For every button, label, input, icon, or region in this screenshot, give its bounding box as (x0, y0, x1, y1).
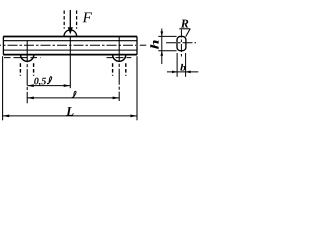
force F arrow (69, 10, 71, 28)
label script ell of 0,5l (47, 77, 51, 84)
L extension line left (2, 56, 4, 120)
right support roller axis (horizontal centerline) (107, 57, 132, 59)
b extension line right (185, 53, 187, 77)
cross-section horizontal centerline (166, 42, 196, 44)
h dimension line (161, 29, 163, 65)
right support roller arc (113, 55, 126, 62)
R leader shelf (179, 28, 190, 30)
loading nose semicircle (64, 30, 77, 36)
h extension line top (158, 35, 176, 37)
label 0,5 digit ',' (39, 83, 41, 86)
left support roller arc (21, 55, 34, 62)
left support hidden leg left (dashed) (19, 63, 21, 75)
mid-span extension line (69, 37, 71, 89)
right support hidden leg left (dashed) (112, 63, 114, 75)
force fixture hidden edge right (dashed) (76, 11, 78, 29)
left support centerline / extension line (26, 40, 28, 103)
label R (181, 20, 189, 28)
cross-section rounded rectangle (177, 36, 186, 50)
dimension 0,5l line (27, 85, 70, 87)
b extension line left (176, 53, 178, 77)
label h (rotated) (150, 40, 158, 49)
b dimension line (167, 71, 198, 73)
label l (script ell) (72, 91, 76, 97)
label F (83, 12, 92, 22)
label 0,5 digit '0' (34, 78, 38, 85)
beam axis centerline end dash (140, 44, 146, 46)
label L (66, 107, 73, 116)
L extension line right (136, 56, 138, 120)
R leader diagonal (186, 29, 191, 37)
right support centerline / extension line (118, 37, 120, 101)
beam rounded-edge tangent line upper (3, 40, 137, 42)
beam outline (3, 37, 137, 55)
force fixture hidden edge left (dashed) (63, 11, 65, 29)
dimension L line (3, 115, 137, 117)
label b (180, 64, 185, 71)
beam axis centerline (0, 44, 136, 46)
left support roller axis (horizontal centerline) (4, 57, 41, 59)
label 0,5 digit '5' (41, 78, 46, 85)
cross-section vertical centerline (180, 30, 182, 57)
dimension l line (27, 97, 119, 99)
h extension line bottom (158, 50, 176, 52)
beam rounded-edge tangent line lower (3, 49, 137, 51)
left support hidden leg right (dashed) (33, 63, 35, 75)
right support hidden leg right (dashed) (125, 63, 127, 75)
